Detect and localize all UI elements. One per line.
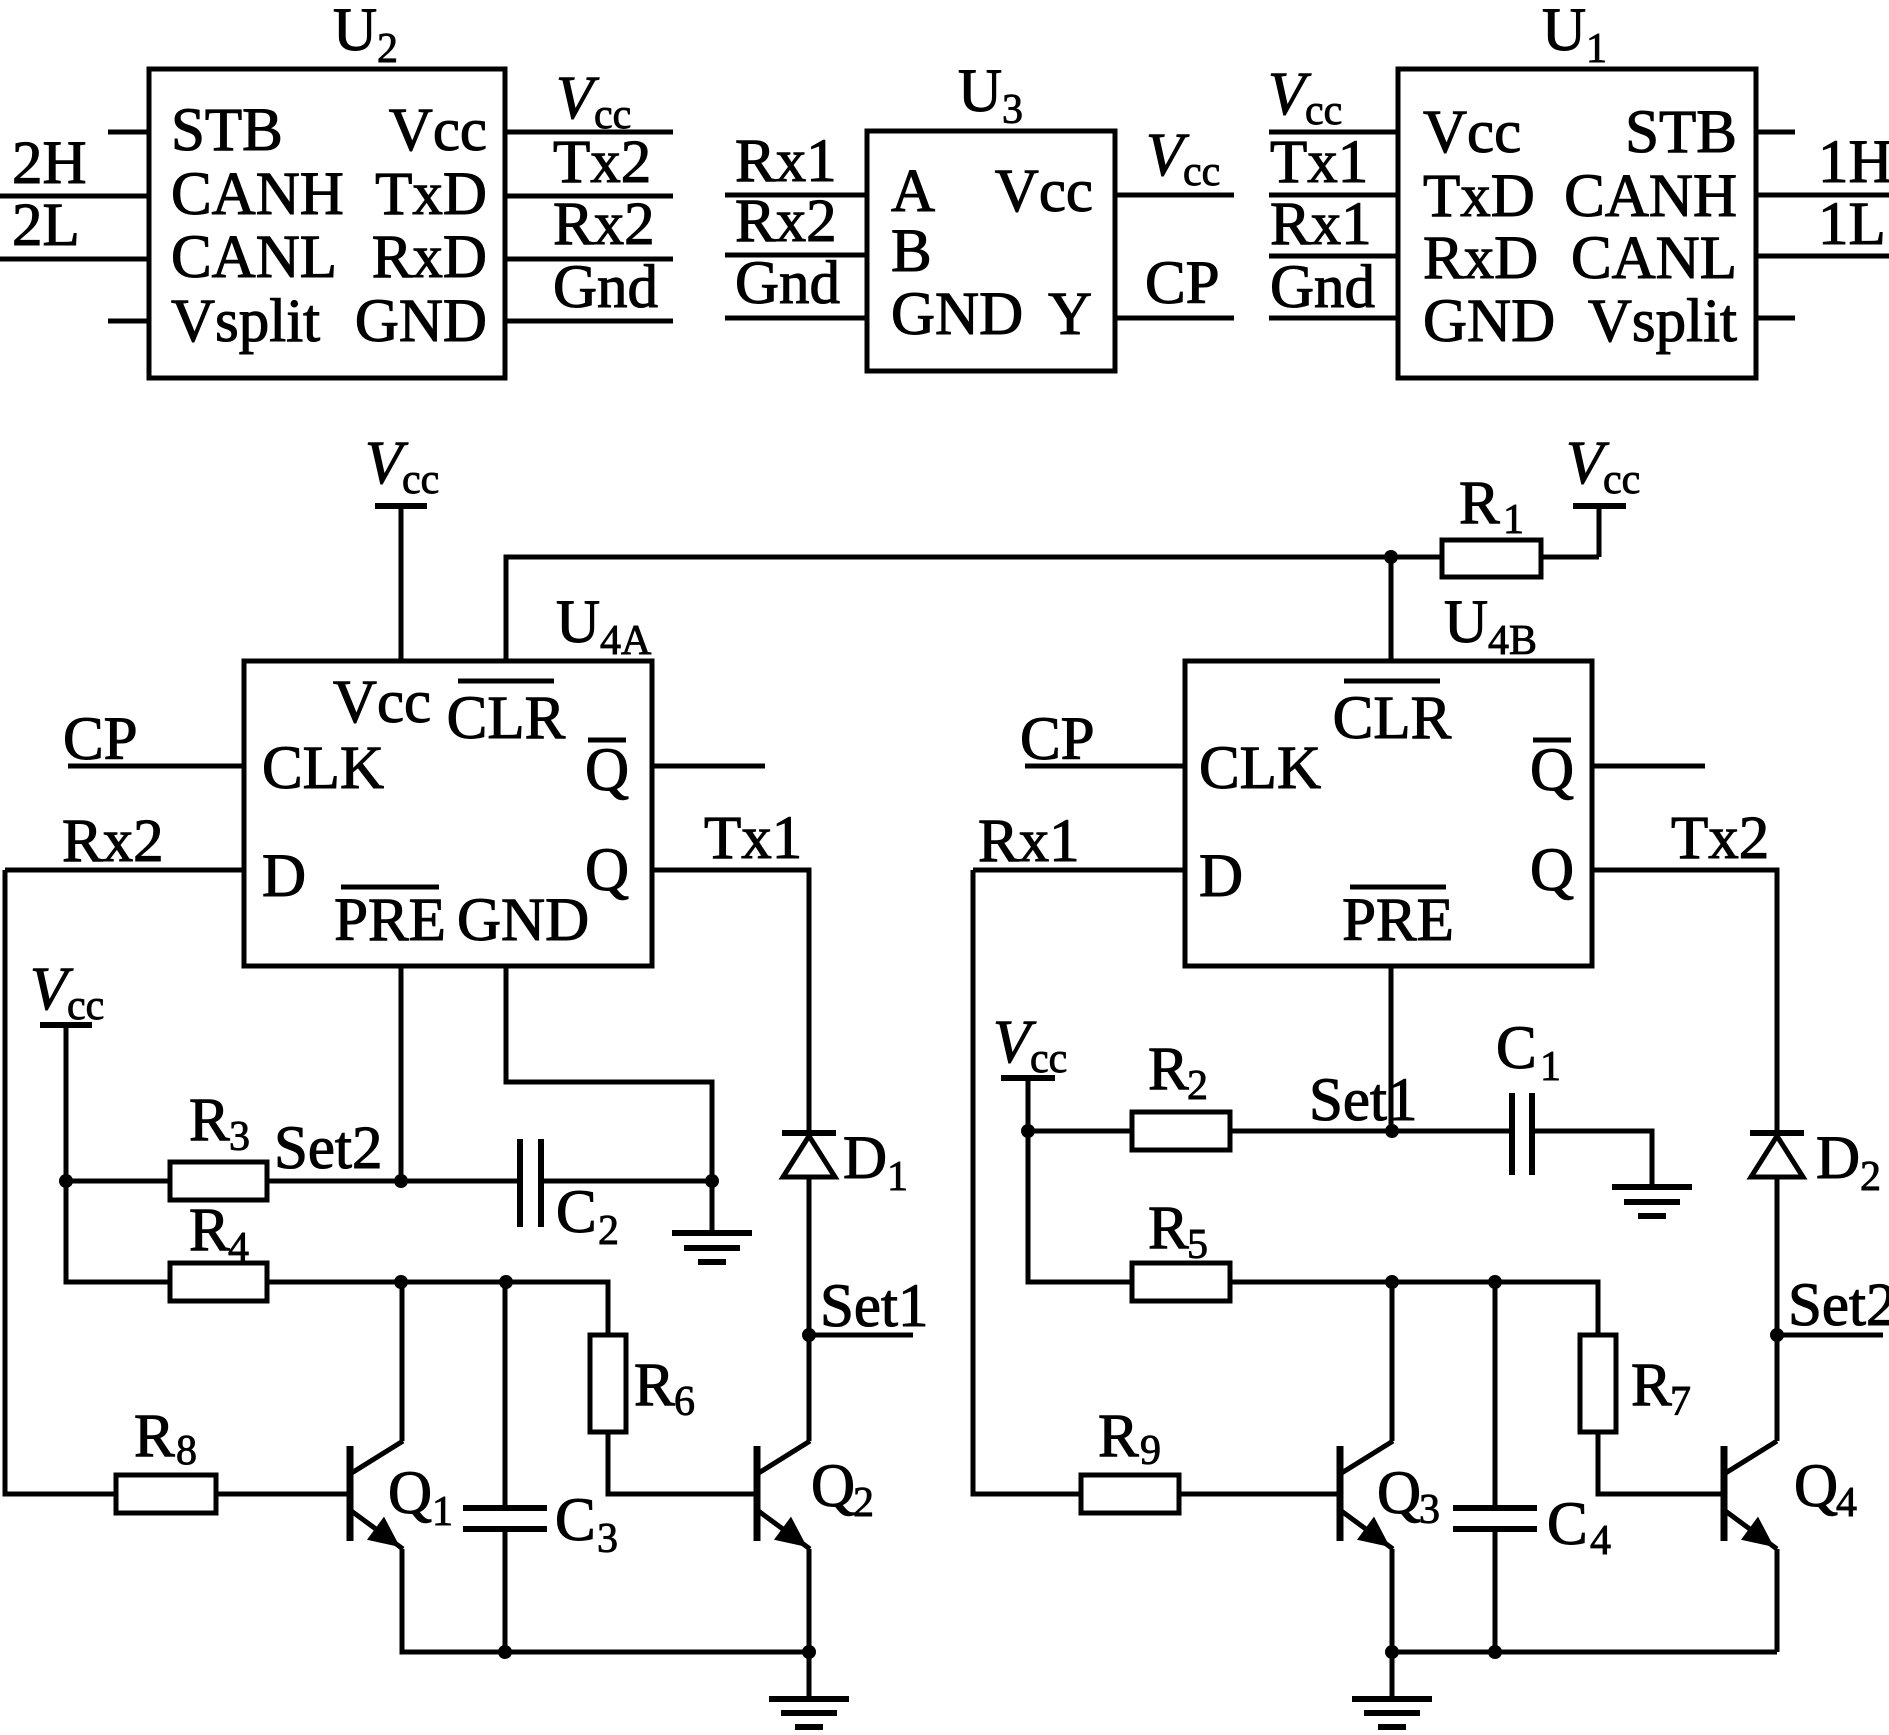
- wire C2 to ground junction: [541, 1179, 712, 1184]
- svg-text:R: R: [1631, 1352, 1672, 1419]
- svg-text:R: R: [134, 1403, 175, 1470]
- svg-text:C: C: [1547, 1491, 1588, 1558]
- ground under Q3: [1352, 1652, 1432, 1727]
- wire R4 to R6 corner: [267, 1282, 608, 1335]
- wire Set1 stub: [809, 1333, 913, 1338]
- wire U2 TxD: [505, 194, 673, 199]
- wire U4B D: [973, 868, 1185, 873]
- ground under Q2: [769, 1652, 849, 1727]
- wire Q1 emitter down and bottom rail: [402, 1549, 809, 1652]
- resistor R2: [1028, 1036, 1230, 1150]
- svg-text:2: 2: [1187, 1063, 1208, 1109]
- node junction C2/GND: [705, 1174, 719, 1188]
- capacitor C2: [520, 1139, 619, 1254]
- flip-flop U4A: [244, 589, 652, 966]
- svg-text:Vsplit: Vsplit: [1588, 288, 1737, 355]
- svg-text:Q: Q: [1377, 1460, 1421, 1527]
- wire Vcc junction down to R4: [66, 1181, 170, 1282]
- svg-text:cc: cc: [1183, 149, 1220, 195]
- svg-text:R: R: [1459, 470, 1500, 537]
- svg-text:TxD: TxD: [1423, 163, 1535, 230]
- svg-text:Q: Q: [388, 1460, 432, 1527]
- wire U4A D: [5, 868, 244, 873]
- wire U1 GND: [1269, 316, 1398, 321]
- ground under C1: [1612, 1187, 1692, 1216]
- wire U4B Qbar stub: [1592, 764, 1705, 769]
- wire R7 to Q4 base: [1598, 1432, 1724, 1494]
- svg-text:R: R: [1148, 1036, 1189, 1103]
- resistor R9: [1081, 1403, 1340, 1513]
- node Vcc (U1 left): [1268, 61, 1342, 134]
- svg-text:Rx2: Rx2: [553, 191, 655, 258]
- wire U4A Q to D1: [652, 870, 809, 1133]
- svg-text:CANH: CANH: [171, 161, 344, 228]
- power Vcc symbol above U4A: [365, 430, 439, 506]
- svg-text:R: R: [1148, 1195, 1189, 1262]
- wire Q2 emitter down: [807, 1549, 812, 1652]
- wire U2 GND: [505, 319, 673, 324]
- wire U1 CANL: [1756, 254, 1889, 259]
- svg-text:STB: STB: [1625, 99, 1737, 166]
- wire R2 to C1: [1230, 1129, 1512, 1134]
- svg-text:cc: cc: [1603, 457, 1640, 503]
- svg-text:CP: CP: [1020, 706, 1095, 773]
- svg-text:B: B: [891, 218, 932, 285]
- wire Set2 stub: [1777, 1333, 1883, 1338]
- diode D1: [782, 1125, 908, 1200]
- svg-text:Tx1: Tx1: [704, 805, 802, 872]
- svg-text:2: 2: [377, 26, 398, 72]
- power Vcc symbol lower right: [993, 1009, 1067, 1082]
- wire C3 bottom: [503, 1529, 508, 1652]
- svg-text:1L: 1L: [1818, 191, 1886, 258]
- wire U4A CLK: [68, 764, 244, 769]
- wire U2 Vcc: [505, 130, 673, 135]
- svg-text:Vcc: Vcc: [995, 158, 1093, 225]
- svg-text:4: 4: [228, 1225, 249, 1271]
- node junction C4/bottom rail: [1488, 1645, 1502, 1659]
- resistor R7 (vertical): [1580, 1335, 1691, 1432]
- svg-text:Rx2: Rx2: [735, 188, 837, 255]
- svg-text:Q: Q: [585, 837, 629, 904]
- resistor R6 (vertical): [590, 1335, 695, 1432]
- svg-text:4B: 4B: [1488, 618, 1537, 664]
- svg-text:U: U: [1444, 589, 1488, 656]
- wire R5 to R7 corner: [1230, 1282, 1598, 1335]
- transistor Q1: [350, 1441, 453, 1549]
- capacitor C1: [1496, 1015, 1561, 1175]
- wire U4A PRE pin down: [399, 966, 404, 1181]
- svg-text:Rx1: Rx1: [735, 128, 837, 195]
- svg-text:2L: 2L: [12, 192, 80, 259]
- wire U3 Vcc: [1115, 193, 1234, 198]
- wire Vcc to U4A Vcc pin: [399, 506, 404, 661]
- wire CLR net (U4A CLR to U4B CLR): [506, 557, 1391, 661]
- transistor Q3: [1340, 1441, 1440, 1549]
- wire C3 top: [503, 1282, 508, 1508]
- transistor Q2: [757, 1441, 874, 1549]
- svg-text:Vcc: Vcc: [1423, 99, 1521, 166]
- svg-text:TxD: TxD: [375, 161, 487, 228]
- resistor R1: [1391, 470, 1599, 577]
- svg-text:GND: GND: [891, 281, 1023, 348]
- svg-text:CLK: CLK: [1199, 735, 1321, 802]
- svg-text:Tx2: Tx2: [1671, 805, 1769, 872]
- wire Rx2 rail (left edge down to R8): [5, 870, 116, 1494]
- wire Q3 emitter down: [1390, 1549, 1395, 1652]
- svg-text:Rx1: Rx1: [978, 808, 1080, 875]
- svg-text:RxD: RxD: [1423, 225, 1538, 292]
- resistor R8: [116, 1403, 350, 1513]
- svg-text:1: 1: [1540, 1044, 1561, 1090]
- node junction C3/bottom rail: [498, 1645, 512, 1659]
- svg-text:Rx1: Rx1: [1270, 191, 1372, 258]
- svg-text:Q: Q: [1530, 737, 1574, 804]
- node junction Q2 emitter/rail: [802, 1645, 816, 1659]
- node junction CLR/R1: [1384, 550, 1398, 564]
- resistor R5: [1132, 1195, 1230, 1301]
- svg-text:cc: cc: [402, 457, 439, 503]
- capacitor C4: [1453, 1491, 1611, 1564]
- svg-text:2: 2: [1860, 1154, 1881, 1200]
- svg-text:Vcc: Vcc: [389, 97, 487, 164]
- IC U1 (CAN transceiver, top right): [1398, 0, 1756, 378]
- wire R3 to C2: [267, 1179, 520, 1184]
- svg-text:Y: Y: [1048, 281, 1092, 348]
- svg-text:Gnd: Gnd: [735, 250, 840, 317]
- wire Vcc junction down to R5: [1028, 1131, 1132, 1282]
- svg-text:7: 7: [1670, 1379, 1691, 1425]
- power Vcc symbol lower left: [30, 956, 104, 1029]
- wire U3 A: [725, 193, 867, 198]
- wire U4B CLK: [1025, 764, 1185, 769]
- node Set1 junction: [802, 1328, 816, 1342]
- wire Q1 collector vertical: [400, 1282, 405, 1441]
- svg-text:R: R: [634, 1352, 675, 1419]
- svg-text:GND: GND: [355, 288, 487, 355]
- wire Q3 collector vertical: [1390, 1282, 1395, 1441]
- wire U4A GND pin jog: [506, 966, 712, 1181]
- node junction Vcc/R3/R4: [59, 1174, 73, 1188]
- wire U2 CANH: [0, 194, 149, 199]
- resistor R3: [66, 1087, 267, 1200]
- wire U4B Q to D2: [1592, 870, 1777, 1133]
- node junction R5/Q3 collector: [1385, 1275, 1399, 1289]
- wire U3 B: [725, 253, 867, 258]
- node junction R4/C3: [499, 1275, 513, 1289]
- svg-text:Set1: Set1: [820, 1273, 928, 1340]
- svg-text:R: R: [189, 1087, 230, 1154]
- svg-text:2: 2: [853, 1480, 874, 1526]
- svg-text:cc: cc: [1305, 88, 1342, 134]
- node junction Vcc/R2/R5: [1021, 1124, 1035, 1138]
- svg-text:GND: GND: [1423, 288, 1555, 355]
- svg-text:1: 1: [432, 1489, 453, 1535]
- svg-text:1: 1: [887, 1154, 908, 1200]
- svg-text:Q: Q: [585, 737, 629, 804]
- svg-text:C: C: [555, 1487, 596, 1554]
- wire U2 CANL: [0, 257, 149, 262]
- svg-text:GND: GND: [457, 887, 589, 954]
- flip-flop U4B: [1185, 589, 1592, 966]
- node Vcc (U3 right): [1146, 122, 1220, 195]
- svg-text:Q: Q: [811, 1453, 855, 1520]
- svg-text:4: 4: [1590, 1518, 1611, 1564]
- svg-text:CP: CP: [1145, 250, 1220, 317]
- svg-text:STB: STB: [171, 97, 283, 164]
- svg-text:Vcc: Vcc: [333, 669, 431, 736]
- node junction R5/C4: [1488, 1275, 1502, 1289]
- IC U2 (CAN transceiver, top left): [149, 0, 505, 378]
- svg-text:D: D: [262, 843, 306, 910]
- svg-text:U: U: [958, 58, 1002, 125]
- svg-text:Tx2: Tx2: [553, 129, 651, 196]
- svg-text:CANL: CANL: [1571, 225, 1737, 292]
- svg-text:Set2: Set2: [1788, 1272, 1889, 1339]
- wire Vcc stem to R3: [64, 1025, 69, 1181]
- svg-text:CLR: CLR: [447, 685, 566, 752]
- svg-text:U: U: [333, 0, 377, 64]
- wire D2 to Set2: [1775, 1177, 1780, 1441]
- svg-text:1: 1: [1586, 26, 1607, 72]
- svg-text:3: 3: [1002, 87, 1023, 133]
- svg-text:Set2: Set2: [274, 1115, 382, 1182]
- svg-text:2H: 2H: [12, 130, 87, 197]
- wire U1 Vcc: [1269, 130, 1398, 135]
- svg-text:5: 5: [1187, 1222, 1208, 1268]
- wire C4 top: [1493, 1282, 1498, 1508]
- wire U4B PRE pin down: [1389, 966, 1394, 1131]
- svg-text:Gnd: Gnd: [553, 254, 658, 321]
- wire Rx1 rail (down to R9): [973, 870, 1081, 1494]
- wire C1 to ground: [1532, 1131, 1652, 1187]
- svg-text:cc: cc: [67, 983, 104, 1029]
- wire bottom rail right half: [1392, 1650, 1777, 1655]
- node junction Set1/PRE: [1385, 1124, 1399, 1138]
- svg-text:PRE: PRE: [1342, 887, 1454, 954]
- svg-text:C: C: [556, 1179, 597, 1246]
- wire U4A Qbar stub: [652, 764, 765, 769]
- wire U2 Vsplit stub: [108, 319, 149, 324]
- svg-text:3: 3: [229, 1114, 250, 1160]
- svg-text:4A: 4A: [600, 618, 652, 664]
- svg-text:U: U: [556, 589, 600, 656]
- svg-text:Set1: Set1: [1309, 1067, 1417, 1134]
- wire D1 to Set1: [807, 1177, 812, 1441]
- wire Vcc stem: [1026, 1078, 1031, 1131]
- svg-text:RxD: RxD: [372, 224, 487, 291]
- svg-text:Gnd: Gnd: [1270, 254, 1375, 321]
- svg-text:CLR: CLR: [1333, 685, 1452, 752]
- svg-text:D: D: [1199, 843, 1243, 910]
- wire U3 Y: [1115, 316, 1234, 321]
- svg-text:Q: Q: [1794, 1453, 1838, 1520]
- svg-text:1: 1: [1503, 497, 1524, 543]
- svg-text:A: A: [891, 158, 935, 225]
- svg-text:6: 6: [674, 1379, 695, 1425]
- svg-text:8: 8: [176, 1428, 197, 1474]
- resistor R4: [170, 1197, 267, 1301]
- capacitor C3: [463, 1487, 618, 1562]
- transistor Q4: [1724, 1441, 1857, 1549]
- svg-text:D: D: [843, 1125, 887, 1192]
- wire C4 bottom: [1493, 1529, 1498, 1652]
- svg-text:D: D: [1816, 1125, 1860, 1192]
- wire U2 RxD: [505, 257, 673, 262]
- node junction Q3 emitter/rail: [1385, 1645, 1399, 1659]
- svg-text:PRE: PRE: [334, 887, 446, 954]
- svg-text:CANH: CANH: [1564, 163, 1737, 230]
- svg-text:9: 9: [1140, 1428, 1161, 1474]
- svg-text:3: 3: [597, 1516, 618, 1562]
- svg-text:Q: Q: [1530, 837, 1574, 904]
- svg-text:R: R: [1098, 1403, 1139, 1470]
- node Set2 junction: [1770, 1328, 1784, 1342]
- svg-text:CP: CP: [63, 706, 138, 773]
- wire R6 to Q2 base: [608, 1432, 757, 1494]
- wire U1 CANH: [1756, 193, 1889, 198]
- svg-text:3: 3: [1419, 1487, 1440, 1533]
- power Vcc symbol right of R1: [1566, 430, 1640, 557]
- wire U1 TxD: [1269, 193, 1398, 198]
- svg-text:1H: 1H: [1818, 129, 1889, 196]
- diode D2: [1750, 1125, 1881, 1200]
- ground under C2: [672, 1181, 752, 1262]
- svg-text:4: 4: [1836, 1480, 1857, 1526]
- wire U3 GND: [725, 316, 867, 321]
- svg-text:U: U: [1542, 0, 1586, 64]
- svg-text:Vsplit: Vsplit: [171, 288, 320, 355]
- wire U1 STB stub: [1756, 130, 1795, 135]
- wire U1 RxD: [1269, 254, 1398, 259]
- node junction Set2/PRE: [394, 1174, 408, 1188]
- node junction R4/Q1 collector: [394, 1275, 408, 1289]
- node Vcc (U2 right): [556, 65, 631, 138]
- svg-text:Tx1: Tx1: [1270, 129, 1368, 196]
- wire U2 STB stub: [108, 130, 149, 135]
- svg-text:CANL: CANL: [171, 224, 337, 291]
- svg-text:CLK: CLK: [262, 735, 384, 802]
- IC U3 (XOR gate, top middle): [867, 58, 1115, 371]
- svg-text:cc: cc: [1030, 1036, 1067, 1082]
- wire junction to U4B CLR pin: [1389, 557, 1394, 661]
- svg-text:2: 2: [598, 1208, 619, 1254]
- wire U1 Vsplit stub: [1756, 316, 1795, 321]
- svg-text:C: C: [1496, 1015, 1537, 1082]
- svg-text:Rx2: Rx2: [62, 808, 164, 875]
- svg-text:R: R: [189, 1197, 230, 1264]
- wire Q4 emitter down: [1775, 1549, 1780, 1652]
